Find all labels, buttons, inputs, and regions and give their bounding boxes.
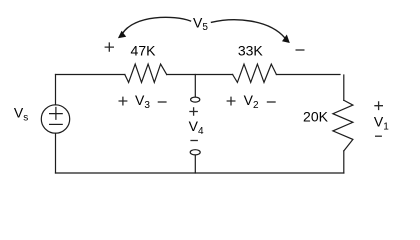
resistor R2 33K (horizontal zigzag) xyxy=(233,64,277,82)
wire: right vertical lower lead xyxy=(343,151,345,173)
wire: top rail middle segment xyxy=(167,74,233,76)
node: open terminal top (V4 port) xyxy=(191,97,200,102)
wire: right vertical upper lead xyxy=(343,75,345,100)
plus (V1) xyxy=(374,101,383,110)
wire: middle stub above top terminal xyxy=(194,75,196,97)
plus/minus label marks xyxy=(105,42,383,140)
wire: bottom rail xyxy=(56,172,344,174)
resistor R1 47K (horizontal zigzag) xyxy=(125,64,167,82)
svg-text:V3: V3 xyxy=(135,92,150,111)
wire: top rail right segment xyxy=(276,74,340,76)
arrowhead left xyxy=(118,31,126,39)
plus (V2) xyxy=(227,97,236,106)
minus (V4) xyxy=(190,140,198,142)
arrow V5 left shaft xyxy=(123,17,191,33)
minus (V1) xyxy=(375,135,382,137)
svg-text:V5: V5 xyxy=(193,15,208,34)
wire: left vertical above source xyxy=(55,75,57,105)
voltage source Vs (circle) xyxy=(41,105,69,133)
svg-text:V1: V1 xyxy=(374,114,389,133)
minus (V2) xyxy=(267,101,276,103)
plus (V3) xyxy=(119,97,128,106)
svg-text:33K: 33K xyxy=(238,43,264,59)
arrow V5 right shaft xyxy=(212,20,285,38)
wire: top rail left segment xyxy=(56,74,125,76)
minus (V5 right) xyxy=(296,49,305,51)
minus (V3) xyxy=(158,101,167,103)
node: open terminal bottom (V4 port) xyxy=(190,150,200,155)
plus (V5 left) xyxy=(105,42,114,51)
plus (V4) xyxy=(189,107,198,116)
plus sign inside source xyxy=(50,108,63,120)
wire: middle stub below bottom terminal xyxy=(194,155,196,173)
minus sign inside source xyxy=(50,123,63,125)
svg-text:47K: 47K xyxy=(131,43,157,59)
wire: left vertical below source xyxy=(55,133,57,173)
svg-text:V4: V4 xyxy=(189,118,204,137)
resistor R3 20K (vertical zigzag) xyxy=(333,100,353,151)
arrowhead right xyxy=(282,35,290,44)
svg-text:Vs: Vs xyxy=(14,105,28,124)
svg-text:20K: 20K xyxy=(303,109,329,125)
svg-text:V2: V2 xyxy=(244,92,259,111)
